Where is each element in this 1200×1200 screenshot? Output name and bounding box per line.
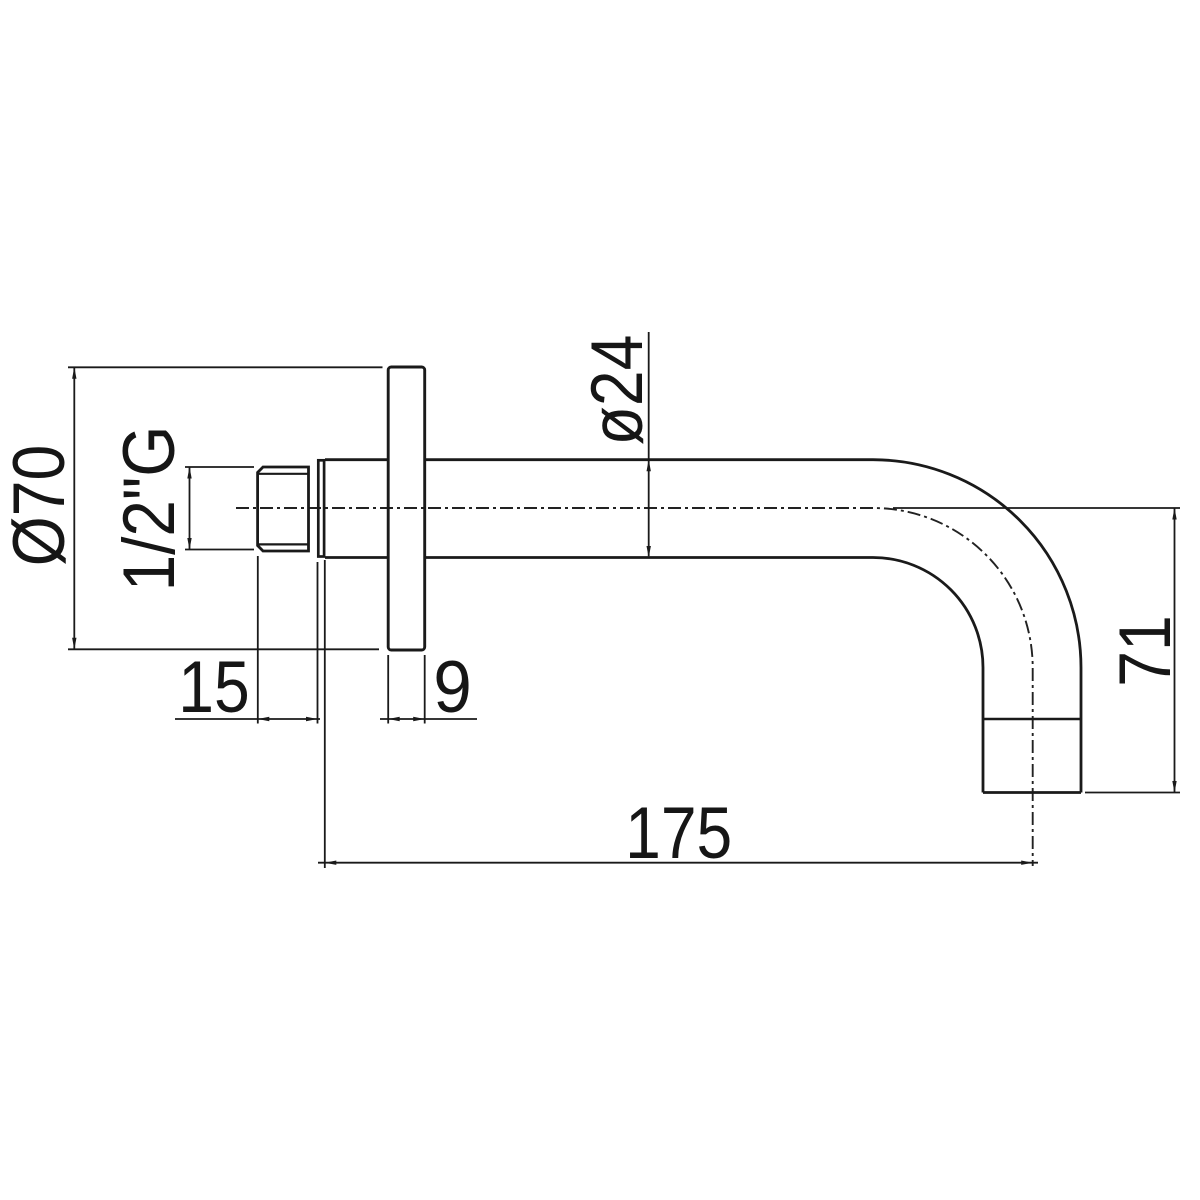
spout end cap line (983, 791, 1081, 794)
dim 15 extension lines (258, 556, 318, 724)
dim O24 line (648, 332, 650, 556)
svg-text:9: 9 (433, 647, 472, 728)
svg-text:1/2"G: 1/2"G (108, 426, 190, 592)
dim O70 extension lines (68, 367, 383, 649)
dim 71 arrows (1172, 508, 1176, 793)
collar disc (318, 460, 324, 556)
dim 175 left extension (324, 560, 326, 868)
wall flange (388, 367, 425, 650)
svg-text:ø24: ø24 (576, 335, 658, 446)
dim 1/2G extension lines (185, 467, 254, 550)
spout tube upper outline (325, 460, 1081, 793)
centerline main axis (236, 508, 1033, 866)
dim 15 arrows (258, 717, 318, 721)
dim O24 arrows (647, 460, 651, 558)
dim 71 bottom extension (1085, 792, 1180, 794)
dim 71 line (1174, 508, 1176, 793)
dim 175 line (318, 862, 1038, 864)
dim 71 top extension (893, 507, 1180, 509)
dim 9 arrows (388, 717, 425, 721)
svg-text:15: 15 (178, 646, 249, 728)
spout tube lower outline (325, 558, 983, 793)
dim 9 line (380, 718, 477, 720)
dim 175 arrows (325, 861, 1033, 865)
dim O70 arrows (72, 367, 76, 649)
dim 1/2G line (189, 467, 191, 550)
nipple thread root lines (258, 474, 309, 545)
dim O70 line (73, 367, 75, 649)
svg-text:Ø70: Ø70 (0, 445, 80, 566)
dim 1/2G arrows (187, 467, 191, 550)
threaded nipple outer (258, 467, 309, 551)
dim 15 line (175, 718, 320, 720)
aerator line (983, 718, 1081, 721)
dim 9 extension lines (388, 655, 425, 724)
svg-text:71: 71 (1104, 615, 1186, 686)
svg-text:175: 175 (625, 792, 732, 874)
